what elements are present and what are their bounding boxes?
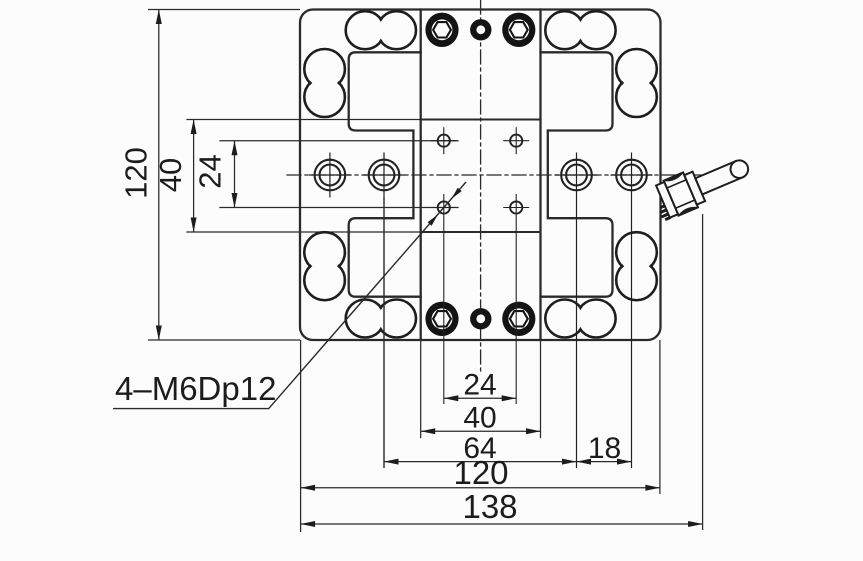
right-lower edge peanut (616, 232, 657, 300)
bottom center hole (470, 308, 491, 329)
ext lines left (148, 10, 300, 341)
dim 64 bottom (384, 461, 577, 463)
hex screw bottom-left (425, 302, 458, 336)
svg-text:24: 24 (463, 369, 496, 402)
threaded hole left-outer (309, 153, 351, 198)
left slot contour (349, 52, 421, 296)
dim 120 bottom (301, 487, 660, 489)
dim 24 vertical (234, 141, 236, 208)
svg-text:4–M6Dp12: 4–M6Dp12 (115, 370, 276, 407)
svg-text:18: 18 (588, 432, 621, 465)
dim 40 vertical (193, 120, 195, 233)
band line bottom (187, 231, 421, 233)
row line bottom (220, 207, 458, 209)
dim 40 bottom (421, 430, 541, 432)
band line top (187, 119, 421, 121)
svg-text:40: 40 (463, 402, 496, 435)
dim 138 bottom (301, 523, 703, 525)
svg-text:120: 120 (119, 147, 154, 199)
svg-text:40: 40 (153, 158, 188, 192)
bottom-right peanut (545, 300, 615, 338)
dim 18 bottom (577, 461, 632, 463)
connector cable gland (649, 148, 755, 222)
svg-text:120: 120 (453, 454, 508, 491)
top center hole (470, 19, 491, 40)
hex screw bottom-right (502, 302, 535, 336)
M6 hole top-right (503, 127, 529, 154)
horizontal centerline (287, 174, 713, 176)
svg-text:24: 24 (193, 154, 228, 188)
left-upper edge peanut (304, 49, 345, 117)
threaded hole left-inner (363, 153, 405, 469)
hex screw top-right (502, 13, 535, 47)
top-right peanut (545, 11, 615, 49)
extension lines bottom (301, 198, 703, 533)
top-left peanut (346, 11, 416, 49)
M6 hole bottom-left (431, 194, 457, 404)
left-lower edge peanut (304, 232, 345, 300)
row line top (220, 140, 458, 142)
right slot contour (541, 52, 613, 296)
right-upper edge peanut (616, 49, 657, 117)
dim 120 vertical (158, 10, 160, 341)
leader 4-M6Dp12 (113, 182, 466, 409)
threaded hole right-outer (611, 153, 653, 469)
strip right edge + ext (539, 10, 541, 341)
M6 hole top-left (431, 127, 457, 154)
bottom-left peanut (346, 300, 416, 338)
strip left edge + ext (420, 10, 422, 341)
vertical centerline (480, 0, 482, 372)
dim 24 bottom (444, 397, 516, 399)
M6 hole bottom-right (503, 194, 529, 404)
svg-text:138: 138 (462, 488, 517, 525)
plate outline (300, 10, 661, 341)
threaded hole right-inner (556, 153, 598, 469)
hex screw top-left (425, 13, 458, 47)
